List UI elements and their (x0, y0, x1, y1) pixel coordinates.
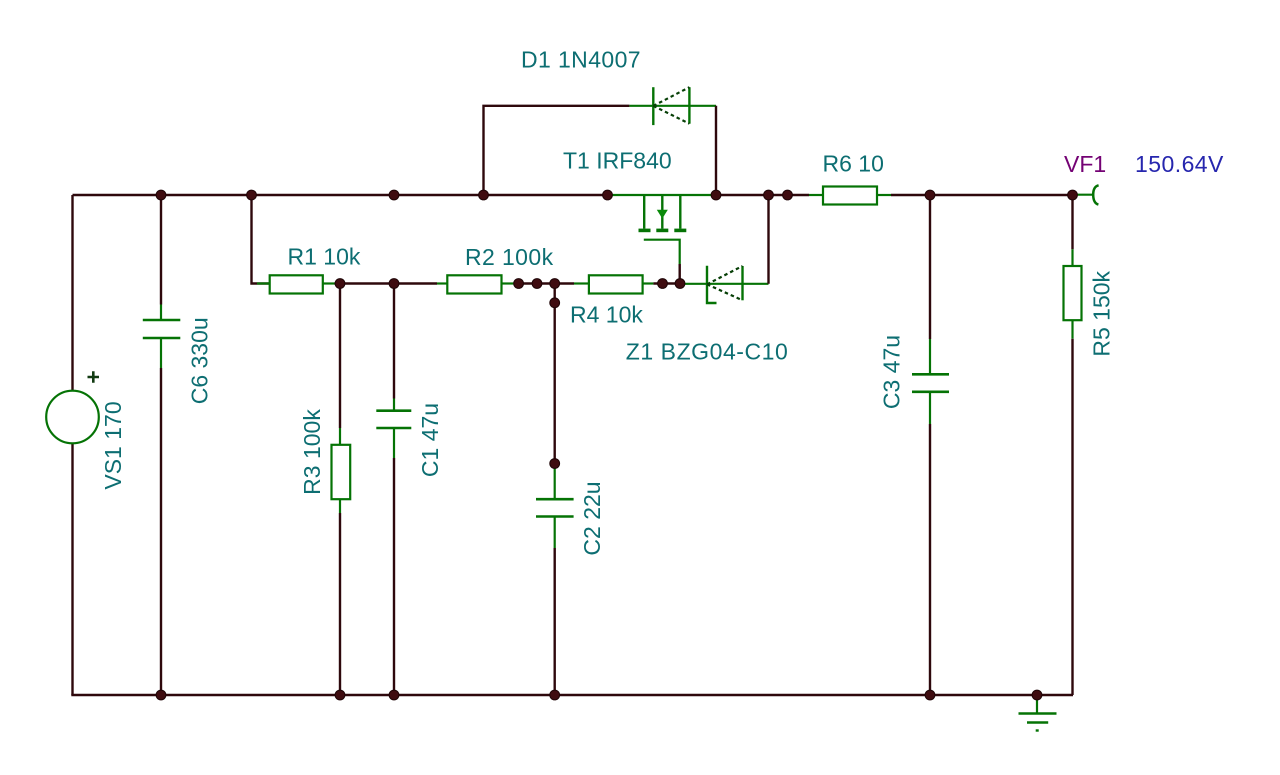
junction mid A (514, 279, 524, 289)
svg-text:Z1 BZG04-C10: Z1 BZG04-C10 (626, 339, 789, 365)
capacitor C2 (536, 284, 574, 696)
junction ground node (1032, 690, 1042, 700)
svg-text:VS1 170: VS1 170 (100, 401, 126, 489)
output terminal VF1 (1073, 185, 1099, 204)
junction C3 bottom (925, 690, 935, 700)
svg-text:C6 330u: C6 330u (187, 317, 213, 404)
junction R1-R3 (335, 279, 345, 289)
node T1 drain (603, 190, 613, 200)
node T1 source (764, 190, 774, 200)
resistor R2 (437, 275, 513, 293)
diode D1 (484, 87, 717, 195)
wire top rail right (716, 194, 1073, 196)
zener diode Z1 (683, 195, 769, 303)
resistor R4 (574, 275, 653, 293)
node D1 cathode (711, 190, 721, 200)
svg-text:C3 47u: C3 47u (879, 335, 905, 409)
svg-text:R2 100k: R2 100k (465, 244, 554, 270)
junction R4-Z1 (658, 279, 668, 289)
svg-text:R3 100k: R3 100k (299, 409, 325, 495)
ground (1019, 695, 1057, 731)
svg-text:C1 47u: C1 47u (417, 403, 443, 477)
junction C1 bottom (389, 690, 399, 700)
node VF1 output (1068, 190, 1078, 200)
resistor R5 (1064, 195, 1082, 695)
node R1 top (247, 190, 257, 200)
resistor R3 (332, 284, 351, 696)
junction mid B (532, 279, 542, 289)
capacitor C3 (912, 195, 949, 695)
svg-text:R1 10k: R1 10k (288, 244, 361, 270)
mosfet T1 (639, 195, 687, 284)
node D1 anode (479, 190, 489, 200)
junction C2 branch (550, 279, 560, 289)
wire bottom rail (71, 694, 1073, 696)
wire R1 to R2 (335, 282, 438, 284)
svg-text:R4 10k: R4 10k (570, 302, 643, 328)
wire top rail mosfet green segment (608, 194, 716, 196)
wire top rail left (73, 194, 609, 196)
node top rail B (783, 190, 793, 200)
svg-text:150.64V: 150.64V (1135, 151, 1224, 177)
junction C2 bottom (550, 690, 560, 700)
resistor R6 (809, 187, 891, 205)
node C3 top (925, 190, 935, 200)
resistor R1 (252, 195, 335, 294)
junction C2 lead (550, 459, 560, 469)
svg-text:C2 22u: C2 22u (579, 481, 605, 555)
svg-text:R5 150k: R5 150k (1089, 270, 1115, 356)
junction gate node (675, 279, 685, 289)
wire R4 to zener node (653, 282, 683, 284)
junction C1 top (389, 279, 399, 289)
junction C2 stub (550, 298, 560, 308)
voltage source VS1 (46, 371, 99, 443)
wire R2 to R4 (513, 282, 574, 284)
svg-text:D1 1N4007: D1 1N4007 (521, 47, 641, 73)
capacitor C6 (143, 195, 181, 695)
svg-text:T1 IRF840: T1 IRF840 (563, 148, 672, 174)
svg-text:VF1: VF1 (1064, 151, 1106, 177)
junction C6 bottom (156, 690, 166, 700)
node C6 top (156, 190, 166, 200)
svg-text:R6 10: R6 10 (823, 151, 884, 177)
junction R3 bottom (335, 690, 345, 700)
wire left vertical (VS1 branch) (71, 195, 73, 695)
node top rail A (389, 190, 399, 200)
capacitor C1 (376, 284, 411, 696)
